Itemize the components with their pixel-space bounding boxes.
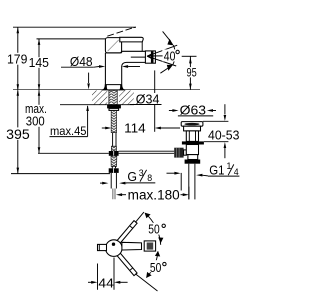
wire: deck surface line xyxy=(13,89,200,91)
wire: 395 bottom reference line xyxy=(11,173,110,175)
drain lower body xyxy=(186,145,198,155)
wire: 179 top extension line xyxy=(13,26,136,28)
label Ø34 with underline xyxy=(134,93,162,104)
threaded mounting rod xyxy=(111,110,116,132)
svg-text:114: 114 xyxy=(124,121,146,136)
dimension arrow right of body pointing left xyxy=(122,65,128,68)
threaded rod lower section xyxy=(111,146,116,151)
svg-text:395: 395 xyxy=(6,127,30,142)
wire: gasket reference line B xyxy=(204,141,229,143)
svg-text:145: 145 xyxy=(29,55,49,70)
40 degree fan line lower xyxy=(147,56,176,66)
hose upper nut xyxy=(109,151,119,156)
dimension max.180 xyxy=(116,193,122,196)
svg-text:4: 4 xyxy=(234,167,239,177)
faucet lever (horizontal rest position) xyxy=(120,37,143,42)
wire: basin rim reference line A xyxy=(203,120,229,122)
dimension arrow to drain extension line xyxy=(167,172,175,174)
drain tailpipe xyxy=(188,164,190,200)
plan: -50 deg lever position bar xyxy=(117,253,137,276)
svg-text:50: 50 xyxy=(148,222,159,237)
mounting nut under deck xyxy=(107,105,121,109)
drain plug flange xyxy=(181,122,203,127)
drain step xyxy=(188,155,198,160)
wire: 145 extension line xyxy=(37,38,106,40)
faucet spout xyxy=(122,50,147,52)
dimension 179 vertical line xyxy=(17,27,19,89)
faucet raised lever dashed indication xyxy=(107,34,114,36)
svg-text:G: G xyxy=(127,169,137,184)
dimension 95 xyxy=(182,55,197,57)
hose neck xyxy=(111,166,113,168)
deck hatching left patch xyxy=(92,91,107,105)
G3/8 connection nut xyxy=(109,168,119,173)
svg-text:G1: G1 xyxy=(209,162,224,177)
faucet base escutcheon xyxy=(103,85,124,90)
40 degree fan line upper xyxy=(147,45,177,56)
label 40 degrees xyxy=(147,55,163,57)
dimension 145 vertical line xyxy=(38,39,40,90)
faucet aerator tip xyxy=(145,51,155,63)
svg-text:179: 179 xyxy=(7,51,27,66)
plan: spout bar xyxy=(122,242,142,250)
svg-text:8: 8 xyxy=(147,173,152,183)
plan: +50 deg lever position bar xyxy=(117,221,137,244)
dimension max.45 upper arrow xyxy=(88,73,90,83)
40 degree arc xyxy=(173,45,175,65)
wire: deck underside line xyxy=(60,104,134,106)
svg-text:300: 300 xyxy=(26,115,45,129)
G3/8 leader arrows at hose xyxy=(100,182,103,184)
plain rod section xyxy=(112,133,114,147)
plan: rear stub xyxy=(98,244,107,250)
dimension 395 vertical line xyxy=(17,90,19,173)
plan: faucet body circle xyxy=(106,240,123,257)
plan: lower 50 deg arc xyxy=(147,251,158,277)
wire: lever-to-spout joint line xyxy=(141,42,143,51)
plan: upper 50 deg arc xyxy=(145,213,161,245)
drain gasket disc xyxy=(182,141,204,144)
plan: pivot dot xyxy=(112,243,115,246)
pop-up rod horizontal xyxy=(119,150,175,152)
braided hose section xyxy=(111,156,117,166)
plan: +50 extension line xyxy=(135,212,144,222)
wire: max.300 bottom reference line xyxy=(38,152,109,154)
faucet cap (cartridge cover) xyxy=(105,38,121,53)
pop-up rod clamp on drain xyxy=(174,148,183,158)
dimension 114 xyxy=(154,70,156,131)
svg-text:max.180: max.180 xyxy=(128,187,180,202)
dimension max.300 vertical line xyxy=(38,90,40,153)
svg-text:max.45: max.45 xyxy=(50,124,87,138)
svg-text:50: 50 xyxy=(150,260,161,275)
svg-text:40-53: 40-53 xyxy=(208,128,239,143)
drain upper body xyxy=(184,126,201,131)
plan: aerator block xyxy=(144,241,155,251)
drain neck xyxy=(186,131,198,142)
supply pipe below xyxy=(110,173,112,189)
svg-text:95: 95 xyxy=(187,66,197,80)
dimension 44 xyxy=(97,264,99,290)
plan: -50 extension line xyxy=(135,274,157,291)
dimension 40-53 xyxy=(224,104,226,114)
svg-text:Ø63: Ø63 xyxy=(180,103,206,118)
drain nut xyxy=(185,160,201,164)
deck hatching right patch xyxy=(119,91,134,105)
faucet body sides xyxy=(104,53,106,85)
svg-text:40: 40 xyxy=(164,48,176,63)
faucet shank threads in deck hole xyxy=(109,90,117,104)
svg-text:44: 44 xyxy=(98,276,113,291)
